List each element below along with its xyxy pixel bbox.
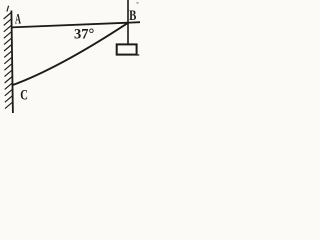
- wire BC (diagonal member from C up to B): [12, 23, 128, 85]
- node C label: [20, 86, 28, 103]
- svg-text:C: C: [20, 86, 28, 103]
- wall hatching: [4, 6, 13, 109]
- svg-text:B: B: [129, 6, 136, 23]
- rope through B from top edge down to weight: [127, 0, 129, 45]
- weight block hanging at B: [117, 44, 137, 54]
- scan speck top right: [137, 2, 139, 4]
- wall: [11, 11, 13, 114]
- svg-text:37°: 37°: [74, 27, 95, 43]
- scan blob at box bottom-right: [137, 54, 139, 56]
- wire AB (horizontal member from wall to B): [12, 22, 141, 27]
- node A label: [15, 10, 21, 27]
- svg-text:A: A: [15, 10, 21, 27]
- node B label: [129, 6, 136, 23]
